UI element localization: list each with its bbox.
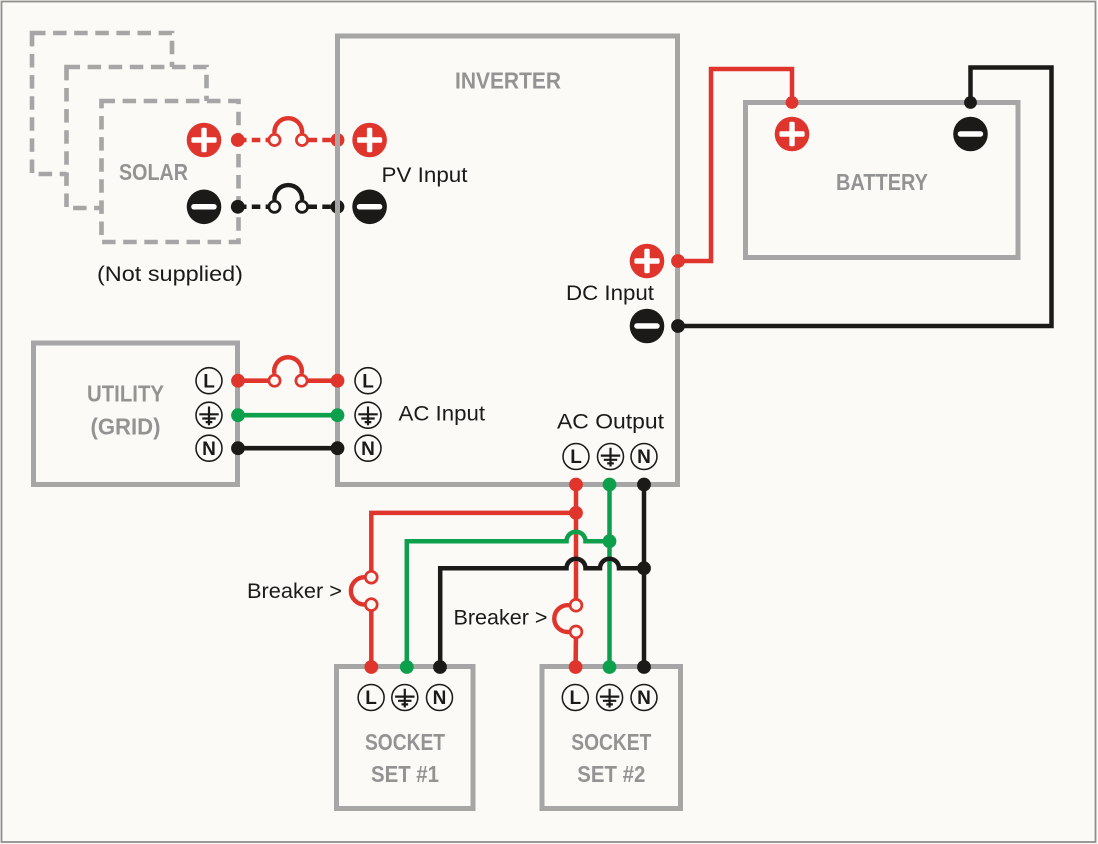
svg-text:Breaker >: Breaker >	[247, 580, 342, 603]
node black branch	[637, 561, 651, 575]
socket2 terminal N	[631, 685, 657, 711]
node solar-	[231, 200, 245, 214]
node socket2 N	[637, 660, 651, 674]
socket set 1 box	[337, 667, 474, 809]
utility terminal L	[196, 368, 222, 394]
node socket1 earth	[400, 660, 414, 674]
socket1 terminal L	[358, 685, 384, 711]
PV input - terminal	[352, 190, 387, 225]
breaker 1	[351, 571, 377, 610]
socket1 terminal earth	[392, 685, 418, 711]
node utility earth	[231, 408, 245, 422]
node socket2 L	[569, 660, 583, 674]
connector pair PV+	[269, 118, 308, 145]
node inverter AC L	[331, 374, 345, 388]
svg-text:L: L	[203, 371, 215, 392]
node AC out N	[637, 478, 651, 492]
solar + terminal	[187, 123, 222, 158]
solar panel box 2 (middle)	[67, 67, 207, 208]
battery + terminal	[775, 117, 810, 152]
svg-text:PV Input: PV Input	[382, 164, 468, 187]
battery - terminal	[953, 117, 988, 152]
svg-text:(GRID): (GRID)	[91, 414, 161, 440]
svg-text:N: N	[202, 439, 216, 460]
wire AC earth (green)	[238, 413, 338, 418]
solar panel box 1 (front, SOLAR)	[102, 101, 239, 242]
svg-text:SET #2: SET #2	[577, 761, 645, 787]
connector pair AC L	[269, 357, 307, 386]
socket2 terminal earth	[597, 685, 623, 711]
node DC+ on inverter edge	[671, 254, 685, 268]
svg-text:SOLAR: SOLAR	[119, 159, 188, 185]
svg-text:L: L	[362, 371, 374, 392]
svg-text:L: L	[570, 447, 582, 468]
socket1 terminal N	[427, 685, 453, 711]
inverter box	[338, 36, 678, 485]
svg-text:BATTERY: BATTERY	[836, 169, 928, 195]
svg-text:(Not supplied): (Not supplied)	[97, 263, 243, 286]
node green branch	[603, 534, 617, 548]
svg-text:N: N	[433, 688, 447, 709]
inverter AC input terminal L	[355, 368, 381, 394]
wire PV- dashed black	[238, 205, 338, 210]
node DC- on inverter edge	[671, 319, 685, 333]
node inverter AC N	[331, 441, 345, 455]
svg-text:SET #1: SET #1	[371, 761, 439, 787]
svg-text:AC Input: AC Input	[399, 403, 486, 426]
wire AC out N (black)	[440, 485, 644, 668]
node inverter PV+	[331, 133, 345, 147]
node red branch	[569, 506, 583, 520]
solar - terminal	[187, 190, 222, 225]
node AC out earth	[603, 478, 617, 492]
breaker 2	[554, 599, 582, 637]
svg-text:L: L	[365, 688, 377, 709]
wire PV+ dashed red	[238, 138, 338, 143]
node socket2 earth	[603, 660, 617, 674]
utility terminal N	[196, 435, 222, 461]
svg-text:L: L	[569, 688, 581, 709]
utility terminal earth	[196, 402, 222, 428]
node inverter PV-	[331, 200, 345, 214]
node utility N	[231, 441, 245, 455]
svg-text:SOCKET: SOCKET	[365, 729, 445, 755]
node battery -	[964, 96, 977, 109]
wire AC out L (red)	[371, 485, 576, 668]
node AC out L	[569, 478, 583, 492]
wire AC N (black)	[238, 446, 338, 451]
node inverter AC earth	[331, 408, 345, 422]
socket2 terminal L	[562, 685, 588, 711]
node battery +	[786, 96, 799, 109]
svg-text:N: N	[361, 439, 375, 460]
AC output terminal earth	[598, 444, 624, 470]
PV input + terminal	[352, 123, 387, 158]
node socket1 N	[433, 660, 447, 674]
connector pair PV-	[269, 185, 308, 212]
DC input - terminal	[630, 309, 665, 344]
wire AC out earth (green)	[407, 485, 610, 668]
node solar+	[231, 133, 245, 147]
svg-text:INVERTER: INVERTER	[455, 68, 561, 94]
solar panel box 3 (back)	[32, 33, 172, 174]
node utility L	[231, 374, 245, 388]
node socket1 L	[364, 660, 378, 674]
svg-text:DC Input: DC Input	[566, 282, 654, 305]
svg-text:Breaker >: Breaker >	[454, 607, 548, 630]
utility box	[34, 343, 238, 485]
wire AC L (red)	[238, 378, 338, 383]
AC output terminal L	[563, 444, 589, 470]
AC output terminal N	[631, 444, 657, 470]
DC input + terminal	[630, 244, 665, 279]
battery box	[746, 103, 1019, 258]
svg-text:N: N	[637, 688, 651, 709]
socket set 2 box	[542, 667, 681, 809]
wire battery + to DC input + (red)	[678, 69, 792, 261]
svg-text:AC Output: AC Output	[557, 411, 664, 434]
inverter AC input terminal earth	[355, 402, 381, 428]
inverter AC input terminal N	[355, 435, 381, 461]
svg-text:UTILITY: UTILITY	[87, 381, 164, 407]
svg-text:SOCKET: SOCKET	[571, 729, 651, 755]
wire battery - to DC input - (black)	[678, 68, 1052, 327]
svg-text:N: N	[637, 447, 651, 468]
